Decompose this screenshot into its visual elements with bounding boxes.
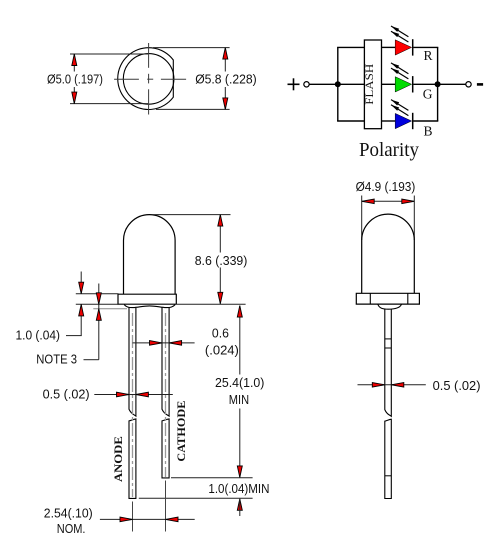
vertical centerline — [148, 43, 150, 115]
LED red triangle — [395, 40, 411, 55]
wire red LED to right bus — [413, 46, 438, 48]
node A junction dot — [335, 81, 341, 87]
dimension 1.0 flange line — [80, 272, 82, 336]
LED flange — [118, 294, 176, 304]
LED green emission arrows — [391, 63, 408, 74]
LED dome body — [124, 215, 176, 295]
inner body circle (Ø5.0) — [123, 54, 174, 105]
dimension 2.54 arrows — [120, 517, 133, 522]
flange bottom left extension line — [76, 303, 119, 305]
side dome body — [362, 214, 415, 293]
anode centerline — [132, 313, 134, 497]
wire FLASH to blue LED — [382, 120, 396, 122]
svg-text:Polarity: Polarity — [359, 140, 419, 161]
svg-text:CATHODE: CATHODE — [174, 401, 188, 462]
wire bottom branch to FLASH — [337, 120, 364, 122]
wire top branch to FLASH — [337, 46, 364, 48]
dimension 0.6 line — [133, 342, 195, 344]
dimension Ø5.8 arrows — [223, 48, 228, 60]
LED blue triangle — [395, 113, 411, 128]
anode center extension — [132, 502, 134, 532]
dimension Ø5.0 arrows — [72, 54, 77, 66]
dimension 1.0 flange arrows — [79, 282, 84, 294]
wire green LED to right bus — [413, 83, 437, 85]
svg-text:2.54(.10): 2.54(.10) — [44, 506, 93, 521]
dimension 8.6 line — [219, 215, 221, 304]
leader NOTE 3 — [84, 359, 99, 361]
cathode center extension — [165, 481, 167, 532]
side lead lower piece — [385, 419, 392, 498]
flange bottom right extension line — [177, 303, 246, 305]
dimension 2.54 line — [100, 518, 195, 520]
LED blue emission arrows — [391, 100, 408, 111]
dimension NOTE3 arrows — [96, 293, 101, 305]
anode lead lower piece — [129, 419, 136, 499]
leader 1.0 — [66, 335, 82, 337]
dimension NOTE3 line — [98, 284, 100, 360]
svg-text:(.024): (.024) — [205, 343, 239, 358]
svg-text:R: R — [424, 48, 433, 63]
anode lead upper piece — [129, 307, 136, 416]
outer flange circle with flat (Ø5.8) — [118, 48, 174, 110]
meniscus extension line — [93, 308, 127, 310]
FLASH block U1 — [364, 40, 381, 129]
LED blue cathode bar — [412, 113, 414, 129]
dimension Ø5.0 line — [73, 54, 75, 104]
cathode bottom extension line — [171, 477, 253, 479]
cathode centerline — [165, 313, 167, 477]
wire right bus — [437, 47, 439, 121]
svg-text:8.6 (.339): 8.6 (.339) — [195, 253, 248, 268]
svg-text:1.0(.04)MIN: 1.0(.04)MIN — [208, 481, 269, 496]
dimension Ø5.8 line — [224, 48, 226, 110]
dimension Ø5.8 extension lines — [153, 48, 230, 110]
dimension 25.4 arrows — [237, 306, 242, 318]
side flange flat facet lines — [370, 293, 408, 304]
dimension 0.5 side arrows — [372, 383, 385, 388]
LED red emission arrows — [391, 26, 408, 37]
minus terminal circle — [466, 82, 471, 87]
side lead crimp ticks — [385, 339, 392, 348]
svg-text:Ø4.9 (.193): Ø4.9 (.193) — [356, 179, 416, 194]
svg-text:FLASH: FLASH — [362, 63, 376, 104]
dimension 1.0 MIN arrow — [237, 499, 242, 511]
wire FLASH to green LED — [382, 83, 396, 85]
cathode lead upper piece — [162, 307, 169, 416]
cathode lead lower piece — [162, 419, 169, 478]
svg-text:Ø5.0 (.197): Ø5.0 (.197) — [47, 72, 103, 87]
wire left bus — [337, 47, 339, 121]
minus terminal symbol — [477, 83, 483, 86]
dimension 8.6 arrows — [218, 215, 223, 227]
LED red cathode bar — [412, 39, 414, 55]
LED green triangle — [395, 77, 411, 92]
wire blue LED to right bus — [413, 120, 438, 122]
horizontal centerline — [114, 78, 186, 80]
plus terminal symbol — [288, 78, 300, 90]
dimension 25.4 line — [239, 306, 241, 478]
svg-text:G: G — [423, 87, 433, 102]
dimension 1.0 MIN stub — [239, 499, 241, 516]
side epoxy meniscus — [378, 304, 402, 309]
side lead upper piece — [385, 309, 392, 416]
svg-text:Ø5.8 (.228): Ø5.8 (.228) — [195, 72, 257, 87]
wire plus terminal to node A — [309, 83, 338, 85]
svg-text:25.4(1.0): 25.4(1.0) — [215, 375, 264, 390]
svg-text:NOTE 3: NOTE 3 — [36, 352, 77, 367]
dimension 0.5 line — [94, 394, 173, 396]
dimension 8.6 extension line — [152, 214, 231, 216]
svg-text:1.0 (.04): 1.0 (.04) — [16, 328, 61, 343]
dimension 4.9 line — [362, 200, 415, 202]
svg-text:ANODE: ANODE — [111, 436, 125, 482]
svg-text:0.5 (.02): 0.5 (.02) — [43, 387, 90, 402]
flange top left extension line — [76, 293, 119, 295]
epoxy meniscus — [124, 305, 175, 308]
dimension 4.9 arrows — [362, 199, 375, 204]
side flange — [356, 293, 419, 304]
side lead lower tick — [385, 475, 392, 477]
dimension 0.6 arrows — [150, 341, 163, 346]
dimension Ø5.0 extension lines — [70, 54, 148, 104]
node B junction dot — [435, 81, 441, 87]
svg-text:NOM.: NOM. — [57, 521, 86, 536]
dimension 4.9 extension lines — [362, 196, 415, 241]
plus terminal circle — [304, 82, 309, 87]
LED green cathode bar — [412, 76, 414, 92]
wire node B to minus terminal — [438, 83, 466, 85]
svg-text:B: B — [424, 123, 433, 138]
wire middle branch to FLASH — [338, 83, 365, 85]
dimension 0.5 arrows — [117, 392, 130, 397]
svg-text:0.6: 0.6 — [212, 326, 229, 341]
svg-text:0.5 (.02): 0.5 (.02) — [433, 378, 481, 393]
anode bottom extension line — [139, 497, 253, 499]
svg-text:MIN: MIN — [229, 392, 249, 407]
wire FLASH to red LED — [382, 46, 396, 48]
dimension 0.5 side line — [358, 384, 426, 386]
